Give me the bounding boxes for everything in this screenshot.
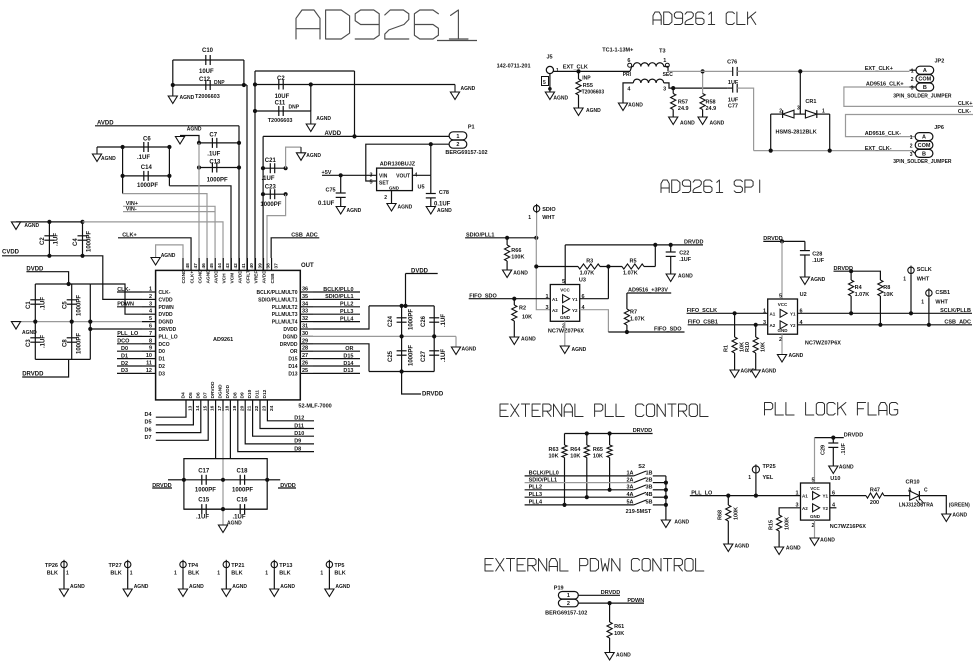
node D1 wire bbox=[117, 353, 142, 359]
svg-text:AGND: AGND bbox=[232, 584, 247, 590]
test point TP26 BLK bbox=[45, 560, 69, 589]
svg-text:1000PF: 1000PF bbox=[87, 231, 93, 252]
ground AGND under R10 bbox=[751, 369, 777, 378]
connector JP2 solder jumper bbox=[893, 59, 952, 100]
ground AGND under R58 bbox=[698, 117, 725, 127]
wire switch common bus to ground bbox=[664, 476, 668, 520]
svg-text:43: 43 bbox=[225, 263, 231, 269]
capacitor C8 1000PF bbox=[62, 322, 82, 360]
wire U3 Y2 to FIFO_SDO out bbox=[580, 310, 609, 332]
svg-text:AVDD: AVDD bbox=[213, 270, 219, 284]
capacitor C11 DNP bbox=[253, 101, 311, 125]
wire DVDD pin 19 into bottom cap block bbox=[229, 411, 231, 459]
svg-text:R68: R68 bbox=[718, 510, 724, 520]
pin 24 D12 of U1 (bottom) bbox=[262, 389, 275, 411]
node D10 wire from pin 22 bbox=[253, 411, 314, 437]
svg-text:D10: D10 bbox=[247, 389, 253, 398]
svg-text:142-0711-201: 142-0711-201 bbox=[497, 64, 531, 70]
svg-text:1000PF: 1000PF bbox=[409, 345, 415, 366]
node SDIO/PLL1 wire bbox=[313, 294, 360, 300]
test point TP21 BLK bbox=[217, 560, 244, 589]
svg-text:D3: D3 bbox=[159, 371, 166, 377]
svg-text:AVDD: AVDD bbox=[262, 270, 268, 284]
svg-text:DVDD: DVDD bbox=[225, 384, 231, 398]
wire C77 down to EXT_CLK- rail bbox=[737, 88, 753, 151]
svg-text:1: 1 bbox=[265, 571, 268, 577]
svg-text:200: 200 bbox=[870, 500, 879, 506]
svg-text:10: 10 bbox=[146, 353, 152, 359]
node BCLK/PLL0 wire bbox=[313, 287, 360, 293]
svg-text:GND: GND bbox=[560, 315, 571, 320]
svg-text:100K: 100K bbox=[785, 517, 791, 530]
svg-text:U2: U2 bbox=[800, 292, 807, 298]
wire staircase AGND rail to pin 42 bbox=[83, 222, 224, 271]
node D9 wire from pin 21 bbox=[245, 411, 314, 445]
svg-text:1: 1 bbox=[911, 69, 914, 75]
svg-text:TP21: TP21 bbox=[231, 563, 244, 569]
capacitor C28 .1UF bbox=[800, 241, 825, 277]
wire DGND pin 30 gray rail bbox=[300, 334, 456, 338]
svg-text:HSMS-2812BLK: HSMS-2812BLK bbox=[776, 130, 817, 136]
svg-text:Y2: Y2 bbox=[822, 506, 828, 511]
node EXT_CLK wire bbox=[554, 65, 631, 74]
svg-text:1: 1 bbox=[903, 277, 906, 283]
svg-text:Y2: Y2 bbox=[572, 308, 578, 313]
ground AGND under U3 bbox=[560, 346, 586, 354]
ground AGND at C12 left bbox=[168, 85, 194, 104]
capacitor C14 1000PF bbox=[121, 165, 172, 189]
svg-text:D5: D5 bbox=[188, 392, 194, 398]
pin 43 VCH of U1 (top) bbox=[221, 258, 231, 284]
svg-text:0.1UF: 0.1UF bbox=[318, 201, 335, 207]
svg-text:Y1: Y1 bbox=[572, 297, 578, 302]
ground AGND under TP21 bbox=[222, 584, 248, 597]
svg-text:C26: C26 bbox=[421, 315, 427, 327]
power CVDD net label bbox=[2, 250, 142, 300]
wire U2 VCC to DRVDD bbox=[781, 241, 783, 299]
svg-text:18: 18 bbox=[225, 405, 231, 411]
svg-text:20: 20 bbox=[239, 405, 245, 411]
pin 34 PLLMULT2 of U1 (right) bbox=[272, 301, 313, 311]
svg-text:GND: GND bbox=[389, 185, 400, 190]
pin 27 D15 of U1 (right) bbox=[288, 353, 313, 363]
resistor R66 100K bbox=[505, 238, 525, 270]
wire DVDD pin 31 to cap block bbox=[313, 306, 369, 329]
svg-text:7: 7 bbox=[149, 331, 152, 337]
pin 44 AVDD of U1 (top) bbox=[213, 258, 223, 284]
svg-text:A2: A2 bbox=[552, 308, 558, 313]
svg-text:AD9261: AD9261 bbox=[213, 337, 233, 343]
svg-text:R2: R2 bbox=[519, 306, 526, 312]
svg-text:R5: R5 bbox=[630, 259, 637, 265]
svg-text:ADR130BUJZ: ADR130BUJZ bbox=[380, 162, 416, 168]
svg-text:EXT_CLK+: EXT_CLK+ bbox=[865, 66, 893, 72]
ground AGND under C28 bbox=[800, 277, 825, 285]
svg-text:3PIN_SOLDER_JUMPER: 3PIN_SOLDER_JUMPER bbox=[893, 159, 952, 165]
node D5 wire from pin 14 bbox=[145, 411, 194, 426]
svg-text:PRI: PRI bbox=[623, 72, 632, 78]
node OUT label at IC corner bbox=[301, 263, 314, 269]
capacitor C29 .1UF bbox=[821, 438, 848, 466]
svg-text:SCLK/PLLB: SCLK/PLLB bbox=[940, 308, 971, 314]
wire U3 GND to ground bbox=[564, 321, 566, 346]
svg-text:C1: C1 bbox=[26, 301, 32, 309]
svg-text:AGND: AGND bbox=[461, 86, 476, 92]
svg-text:VCC: VCC bbox=[778, 302, 788, 307]
ground AGND under U10 bbox=[810, 538, 835, 546]
pin 17 DRVDD of U1 (bottom) bbox=[210, 381, 223, 411]
svg-text:33: 33 bbox=[302, 309, 308, 315]
node CSB wire to CSB_ADC bbox=[271, 238, 319, 258]
svg-text:11: 11 bbox=[146, 361, 152, 367]
node SDIO/PLL1 wire to switch 2A bbox=[525, 477, 666, 483]
svg-text:C21: C21 bbox=[265, 158, 277, 164]
capacitor C76 1UF bbox=[727, 60, 739, 87]
svg-text:D11: D11 bbox=[255, 390, 261, 399]
ground AGND under TP27 bbox=[123, 584, 149, 597]
svg-text:D8: D8 bbox=[232, 392, 238, 398]
svg-text:JP6: JP6 bbox=[934, 125, 944, 131]
wire CLK top rail gray bbox=[668, 70, 733, 72]
node CLK- wire bbox=[846, 109, 974, 137]
svg-text:DGND: DGND bbox=[218, 384, 224, 399]
ground AGND under U2 bbox=[777, 353, 803, 362]
svg-text:AD9516_CLK-: AD9516_CLK- bbox=[865, 131, 902, 137]
resistor R61 10K bbox=[607, 603, 624, 652]
ground AGND under CR10 bbox=[942, 513, 968, 522]
svg-text:C4: C4 bbox=[73, 238, 79, 246]
svg-text:1: 1 bbox=[763, 308, 766, 314]
svg-text:YEL: YEL bbox=[763, 475, 774, 481]
svg-text:10K: 10K bbox=[614, 631, 624, 637]
pin 33 PLLMULT3 of U1 (right) bbox=[272, 309, 313, 319]
svg-text:AGND: AGND bbox=[513, 271, 528, 277]
svg-text:U10: U10 bbox=[830, 476, 840, 482]
ground AGND left of C6 bbox=[92, 147, 122, 162]
svg-text:D14: D14 bbox=[288, 364, 297, 370]
pin 42 VCM of U1 (top) bbox=[230, 258, 240, 284]
capacitor C78 0.1UF bbox=[426, 175, 451, 207]
svg-text:FIFO_SDO: FIFO_SDO bbox=[654, 327, 682, 333]
svg-text:3: 3 bbox=[910, 152, 913, 158]
svg-text:A1: A1 bbox=[552, 297, 558, 302]
svg-text:24.9: 24.9 bbox=[706, 106, 717, 112]
svg-text:4B: 4B bbox=[646, 492, 653, 498]
pin 3 PDWN of U1 bbox=[142, 301, 174, 311]
svg-text:C22: C22 bbox=[679, 251, 689, 257]
capacitor C27 .1UF bbox=[421, 336, 447, 371]
svg-text:INP: INP bbox=[582, 76, 591, 82]
capacitor C13 1000PF bbox=[197, 160, 241, 184]
svg-text:C78: C78 bbox=[439, 190, 449, 196]
svg-text:AGND: AGND bbox=[952, 513, 967, 519]
pin 23 D11 of U1 (bottom) bbox=[255, 390, 268, 411]
svg-text:CLK-: CLK- bbox=[159, 290, 171, 296]
svg-text:38: 38 bbox=[265, 263, 271, 269]
svg-text:5B: 5B bbox=[646, 500, 653, 506]
svg-text:1: 1 bbox=[545, 294, 548, 300]
capacitor C24 1000PF bbox=[388, 306, 415, 337]
wire P1 pin2 to VOUT and SET bbox=[366, 142, 449, 181]
wire DRVDD rail to pin 6 bbox=[88, 327, 142, 331]
test point TP25 YEL bbox=[748, 464, 775, 496]
svg-text:C5: C5 bbox=[62, 301, 68, 309]
svg-text:1.07K: 1.07K bbox=[580, 271, 595, 277]
svg-text:D12: D12 bbox=[294, 416, 304, 422]
svg-text:VCM: VCM bbox=[230, 273, 236, 284]
node D7 wire from pin 16 bbox=[145, 411, 209, 441]
node BCLK/PLL0 wire to switch 1A bbox=[525, 471, 666, 477]
svg-text:.1UF: .1UF bbox=[137, 155, 150, 161]
bottom cap block box bbox=[184, 459, 267, 510]
svg-text:WHT: WHT bbox=[542, 215, 555, 221]
svg-text:AGND: AGND bbox=[762, 369, 777, 375]
power DRVDD net label SPI bbox=[684, 240, 703, 246]
svg-text:R64: R64 bbox=[570, 447, 581, 453]
pin 37 CSB of U1 (top) bbox=[270, 258, 280, 284]
svg-text:AGND: AGND bbox=[205, 269, 211, 284]
svg-text:2: 2 bbox=[779, 109, 782, 115]
svg-text:AGND: AGND bbox=[789, 353, 804, 359]
ground AGND under TP5 bbox=[325, 584, 351, 597]
svg-text:D10: D10 bbox=[294, 431, 304, 437]
pin 41 AVDD of U1 (top) bbox=[238, 258, 248, 284]
svg-text:Y2: Y2 bbox=[790, 323, 796, 328]
svg-text:10UF: 10UF bbox=[275, 94, 290, 100]
svg-text:32: 32 bbox=[302, 316, 308, 322]
resistor R10 10K bbox=[745, 325, 767, 370]
svg-text:5: 5 bbox=[149, 316, 152, 322]
pin 35 SDIO/PLLMULT1 of U1 (right) bbox=[258, 294, 313, 304]
svg-text:EXT_CLK-: EXT_CLK- bbox=[865, 146, 892, 152]
svg-text:AGND: AGND bbox=[521, 337, 536, 343]
svg-text:DRVDD: DRVDD bbox=[210, 381, 216, 399]
svg-text:28: 28 bbox=[302, 346, 308, 352]
svg-text:17: 17 bbox=[217, 405, 223, 411]
svg-text:DGND: DGND bbox=[283, 334, 298, 340]
svg-text:34: 34 bbox=[302, 301, 309, 307]
power DRVDD net label P19 bbox=[578, 590, 620, 596]
svg-text:SEC: SEC bbox=[663, 72, 674, 78]
node PLL4 wire to switch 5A bbox=[525, 500, 666, 506]
op-amp U3 NC7WZ07P6X body bbox=[545, 278, 585, 335]
capacitor block box C1 C5 bbox=[35, 284, 90, 359]
svg-text:.1UF: .1UF bbox=[54, 233, 60, 246]
svg-text:R66: R66 bbox=[511, 248, 521, 254]
svg-text:CSB_ADC: CSB_ADC bbox=[944, 319, 971, 325]
svg-text:COM: COM bbox=[918, 143, 931, 149]
capacitor C3 .1UF bbox=[26, 322, 47, 360]
pin 14 D5 of U1 (bottom) bbox=[188, 392, 201, 411]
resistor R63 10K bbox=[549, 434, 568, 508]
svg-text:D12: D12 bbox=[262, 389, 268, 398]
svg-text:AGND: AGND bbox=[306, 153, 321, 159]
svg-text:10UF: 10UF bbox=[199, 69, 214, 75]
capacitor C26 .1UF bbox=[421, 306, 447, 337]
test point SCLK WHT bbox=[903, 266, 931, 316]
svg-text:SDIO: SDIO bbox=[542, 207, 556, 213]
svg-text:AVDD: AVDD bbox=[238, 270, 244, 284]
svg-text:D0: D0 bbox=[159, 349, 166, 355]
capacitor C22 .1UF bbox=[666, 245, 692, 274]
resistor R15 100K bbox=[769, 515, 791, 547]
svg-text:C10: C10 bbox=[202, 48, 214, 54]
svg-text:3: 3 bbox=[911, 85, 914, 91]
wire DVDD rail to pin 4 bbox=[67, 282, 143, 314]
svg-text:3A: 3A bbox=[626, 485, 633, 491]
svg-text:A1: A1 bbox=[770, 312, 776, 317]
pin 19 DVDD of U1 (bottom) bbox=[225, 384, 238, 411]
resistor R8 10K bbox=[851, 271, 893, 327]
pin 38 AVDD of U1 (top) bbox=[262, 258, 272, 284]
node AD9516_+3P3V wire bbox=[627, 288, 671, 294]
svg-text:WHT: WHT bbox=[917, 277, 930, 283]
svg-text:AGND: AGND bbox=[710, 121, 725, 127]
svg-text:AGND: AGND bbox=[616, 653, 631, 659]
svg-text:NC7WZ16P6X: NC7WZ16P6X bbox=[830, 524, 866, 530]
op-amp U1 AD9261 IC body bbox=[156, 270, 301, 400]
svg-text:DNP: DNP bbox=[289, 105, 300, 111]
svg-text:AGND: AGND bbox=[786, 546, 801, 552]
svg-text:Y1: Y1 bbox=[822, 494, 828, 499]
svg-text:VREF: VREF bbox=[254, 271, 260, 284]
svg-text:AGND: AGND bbox=[553, 96, 568, 102]
svg-text:B: B bbox=[923, 85, 927, 91]
pin 32 PLLMULT4 of U1 (right) bbox=[272, 316, 313, 326]
svg-text:TP13: TP13 bbox=[279, 563, 292, 569]
svg-text:AGND: AGND bbox=[839, 465, 854, 471]
power DVDD net label left bbox=[26, 267, 68, 285]
pin 36 BCLK/PLLMULT0 of U1 (right) bbox=[256, 287, 313, 297]
svg-text:37: 37 bbox=[273, 263, 279, 269]
svg-text:.1UF: .1UF bbox=[196, 515, 209, 521]
svg-text:CVDD: CVDD bbox=[159, 297, 174, 303]
svg-text:J5: J5 bbox=[547, 55, 553, 61]
svg-text:SET: SET bbox=[379, 181, 389, 187]
pin 28 OR of U1 (right) bbox=[290, 346, 313, 356]
svg-text:1: 1 bbox=[822, 109, 825, 115]
svg-text:C15: C15 bbox=[198, 498, 210, 504]
node EXT_CLK+ label bbox=[865, 66, 893, 72]
svg-text:TP4: TP4 bbox=[188, 563, 199, 569]
pin 6 DRVDD of U1 bbox=[142, 324, 177, 334]
svg-text:10K: 10K bbox=[593, 454, 603, 460]
connector JP6 solder jumper bbox=[893, 125, 952, 165]
ground AGND under TP4 bbox=[178, 584, 204, 597]
svg-text:1: 1 bbox=[663, 58, 666, 64]
svg-text:(GREEN): (GREEN) bbox=[949, 503, 970, 509]
node D2 wire bbox=[117, 361, 142, 367]
node D14 wire bbox=[313, 361, 360, 367]
svg-text:C6: C6 bbox=[143, 137, 151, 143]
svg-text:R65: R65 bbox=[593, 447, 603, 453]
svg-text:CSB: CSB bbox=[270, 273, 276, 284]
ground AGND bottom cap block bbox=[218, 521, 242, 533]
wire C2 right to ground bbox=[311, 84, 455, 86]
svg-text:AGND: AGND bbox=[586, 108, 601, 114]
svg-text:D9: D9 bbox=[240, 392, 246, 398]
svg-text:AGND: AGND bbox=[189, 584, 204, 590]
svg-text:D9: D9 bbox=[294, 439, 301, 445]
svg-text:CGND: CGND bbox=[181, 269, 187, 284]
svg-text:10K: 10K bbox=[549, 454, 559, 460]
wire SDIO vertical to U3 A2 bbox=[534, 213, 550, 309]
svg-text:C25: C25 bbox=[388, 350, 394, 362]
svg-text:5: 5 bbox=[543, 80, 546, 86]
section title AD9261 CLK bbox=[653, 12, 756, 25]
svg-text:.1UF: .1UF bbox=[441, 349, 447, 362]
wire U2 GND to ground bbox=[781, 334, 783, 354]
svg-text:2A: 2A bbox=[626, 477, 633, 483]
svg-text:1: 1 bbox=[130, 571, 133, 577]
svg-text:15: 15 bbox=[202, 405, 208, 411]
pin 26 D14 of U1 (right) bbox=[288, 361, 313, 371]
node FIFO_SDO output wire bbox=[608, 327, 684, 335]
op-amp U5 ADR130BUJZ body bbox=[369, 162, 424, 191]
node SDIO/PLL1 wire bbox=[465, 232, 538, 240]
resistor R5 1.07K bbox=[600, 259, 655, 277]
svg-text:3: 3 bbox=[545, 305, 548, 311]
node FIFO_SDO wire to U3 A1 bbox=[469, 293, 551, 301]
svg-text:VIN: VIN bbox=[379, 174, 388, 180]
svg-text:DRVDD: DRVDD bbox=[159, 327, 177, 333]
svg-text:AGND: AGND bbox=[335, 584, 350, 590]
svg-text:D4: D4 bbox=[181, 392, 187, 398]
svg-text:100K: 100K bbox=[511, 255, 524, 261]
svg-text:GND: GND bbox=[810, 514, 821, 519]
svg-text:DRVDD: DRVDD bbox=[422, 392, 444, 398]
svg-text:T2006603: T2006603 bbox=[195, 94, 220, 100]
pin 9 D0 of U1 bbox=[142, 346, 165, 356]
svg-text:AGND: AGND bbox=[462, 347, 477, 353]
pin 16 D7 of U1 (bottom) bbox=[203, 392, 216, 411]
svg-text:23: 23 bbox=[262, 405, 268, 411]
node AD9516_CLK- label bbox=[865, 131, 902, 137]
capacitor C10 10UF bbox=[173, 48, 244, 75]
svg-text:1: 1 bbox=[66, 571, 69, 577]
svg-text:4A: 4A bbox=[626, 492, 633, 498]
svg-text:1: 1 bbox=[910, 135, 913, 141]
svg-text:10K: 10K bbox=[761, 342, 767, 352]
svg-text:1.07K: 1.07K bbox=[630, 317, 645, 323]
svg-text:R63: R63 bbox=[549, 447, 559, 453]
svg-text:EXT_CLK: EXT_CLK bbox=[563, 65, 588, 71]
svg-text:3: 3 bbox=[763, 320, 766, 326]
node SCLK/PLLB output wire bbox=[798, 308, 973, 314]
svg-text:R10: R10 bbox=[745, 342, 751, 352]
svg-text:S2: S2 bbox=[638, 464, 645, 470]
wire AGND to pin 48 bbox=[156, 245, 183, 258]
node PLL2 wire bbox=[313, 302, 360, 308]
sheet title AD9261 bbox=[296, 10, 477, 41]
svg-text:A2: A2 bbox=[802, 506, 808, 511]
svg-text:.1UF: .1UF bbox=[41, 335, 47, 348]
pin 31 DVDD of U1 (right) bbox=[283, 324, 313, 334]
svg-text:C14: C14 bbox=[141, 165, 153, 171]
node +5V wire to VIN bbox=[322, 170, 377, 177]
node FIFO_SCLK wire bbox=[687, 308, 768, 316]
node D12 wire from pin 24 bbox=[267, 411, 314, 422]
connector P19 BERG69157-102 bbox=[545, 586, 587, 617]
op-amp U2 NC7WZ07P6X body bbox=[763, 292, 841, 347]
svg-text:CSB1: CSB1 bbox=[935, 290, 950, 296]
ground AGND under R2 bbox=[510, 337, 536, 345]
svg-text:D11: D11 bbox=[294, 423, 304, 429]
svg-text:R4: R4 bbox=[855, 285, 863, 291]
svg-text:AGND: AGND bbox=[70, 584, 85, 590]
svg-text:.1UF: .1UF bbox=[812, 258, 825, 264]
wire C6 left rail to pin 45 staircase bbox=[123, 147, 207, 270]
